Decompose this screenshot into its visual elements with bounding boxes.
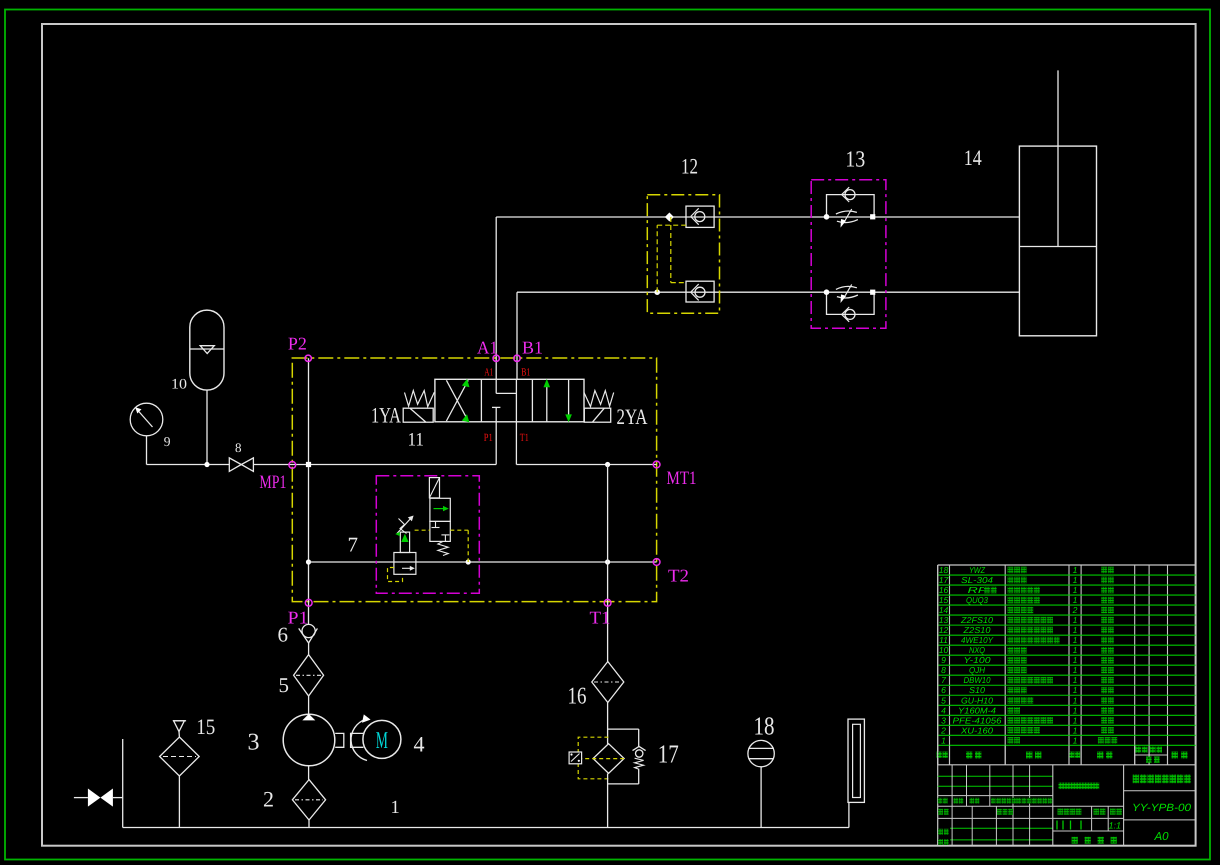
title block signature area grid [938, 565, 1196, 846]
throttle check block 13 boundary (magenta chain) [811, 180, 886, 328]
drawing title CJK [1133, 775, 1191, 784]
svg-text:YWZ: YWZ [969, 565, 986, 575]
svg-text:9: 9 [164, 434, 171, 449]
svg-text:1: 1 [1073, 655, 1078, 665]
svg-text:Y-100: Y-100 [964, 655, 991, 665]
svg-text:1: 1 [941, 735, 946, 745]
pilot control lines (yellow dashed) [415, 530, 469, 562]
svg-text:1: 1 [1073, 585, 1078, 595]
svg-text:1: 1 [1073, 665, 1078, 675]
svg-text:5: 5 [941, 695, 946, 705]
svg-text:QUQ3: QUQ3 [966, 595, 988, 605]
svg-text:2: 2 [1072, 605, 1078, 615]
wire return line T1 down to filter 16 [607, 465, 609, 662]
svg-text:6: 6 [278, 623, 289, 647]
svg-text:4WE10Y: 4WE10Y [961, 635, 994, 645]
port MT1 [653, 461, 660, 468]
svg-text:T2: T2 [668, 566, 689, 586]
svg-text:2: 2 [263, 786, 274, 811]
return filter 16 [592, 662, 624, 703]
wire pump suction below [308, 766, 310, 780]
svg-text:Y160M-4: Y160M-4 [958, 705, 996, 715]
svg-text:MT1: MT1 [667, 468, 697, 489]
svg-text:4: 4 [414, 732, 425, 757]
svg-text:1: 1 [1073, 575, 1078, 585]
pilot cross line lower-to-upper (yellow dashed) [654, 225, 686, 295]
svg-text:2: 2 [940, 725, 946, 735]
wire main pressure line P2-P1-pump [306, 358, 311, 624]
svg-text:1: 1 [1073, 705, 1078, 715]
wire accumulator stem [204, 390, 209, 467]
pressure gauge 9 [130, 403, 163, 436]
svg-text:DBW10: DBW10 [964, 675, 991, 685]
svg-text:7: 7 [348, 532, 359, 556]
BOM parts list table [938, 565, 1196, 765]
pilot valve blocked position symbols [432, 521, 450, 541]
svg-text:P1: P1 [288, 608, 309, 628]
svg-text:A1: A1 [484, 366, 493, 378]
svg-text:1: 1 [1073, 725, 1078, 735]
clogging indicator (yellow dashed box) [569, 737, 624, 779]
port P2 [305, 355, 311, 361]
svg-text:1: 1 [1073, 595, 1078, 605]
manifold block boundary (yellow chain line) [292, 358, 656, 602]
BOM CJK name blocks [984, 567, 1117, 744]
wire T1 valve drop and line to MT1 [516, 422, 656, 467]
svg-text:18: 18 [754, 712, 775, 741]
signature area CJK texts [938, 783, 1122, 846]
pilot cross line upper-to-lower (yellow dashed) [665, 212, 686, 282]
port P1 [305, 599, 312, 606]
svg-text:1: 1 [1073, 715, 1078, 725]
pilot valve open-position green arrow [434, 506, 449, 511]
drain loop (yellow dashed) [388, 568, 403, 582]
svg-text:1: 1 [1073, 635, 1078, 645]
svg-text:2YA: 2YA [617, 404, 648, 429]
valve 11 right position parallel arrows [544, 379, 572, 422]
svg-text:MP1: MP1 [259, 472, 286, 493]
svg-text:11: 11 [939, 635, 948, 645]
svg-text:15: 15 [939, 595, 949, 605]
svg-text:1: 1 [1073, 565, 1078, 575]
port MP1 [289, 462, 296, 469]
drain valve (solid bowtie) [74, 789, 123, 807]
port A1 [493, 355, 499, 361]
BOM header band [937, 745, 1196, 764]
wire filter5 to pump [308, 696, 310, 715]
BOM rows text [939, 565, 1078, 745]
solenoid 2YA box [584, 408, 610, 422]
svg-text:YY-YPB-00: YY-YPB-00 [1132, 802, 1191, 814]
svg-text:13: 13 [845, 147, 865, 172]
svg-text:B1: B1 [521, 366, 530, 378]
svg-text:4: 4 [941, 705, 946, 715]
svg-text:T1: T1 [590, 608, 611, 628]
svg-text:P2: P2 [288, 334, 307, 354]
relief line y562 [309, 559, 657, 564]
filter 17 with bypass [593, 729, 646, 784]
wire P1 valve drop [495, 422, 497, 465]
sight/cooler plate [848, 719, 864, 802]
cylinder 14 body [1019, 146, 1096, 336]
wire gauge stem and MP1 line left segment [147, 436, 230, 465]
svg-text:P1: P1 [484, 432, 493, 444]
check valve 6 [299, 624, 318, 654]
pilot valve boxes [430, 498, 450, 541]
svg-text:A1: A1 [477, 338, 498, 358]
svg-text:8: 8 [941, 665, 946, 675]
svg-text:1: 1 [1073, 625, 1078, 635]
svg-text:9: 9 [941, 655, 946, 665]
upper one-way throttle [824, 187, 876, 227]
hydraulic lock 12 boundary (yellow chain) [647, 195, 719, 314]
air breather 15 [173, 721, 186, 737]
svg-text:QJH: QJH [969, 665, 986, 675]
wire filter16 to filter17 [607, 703, 609, 744]
electric motor 4 [363, 720, 401, 758]
main stage adjustable spring arrow [397, 516, 414, 534]
svg-text:M: M [376, 728, 388, 754]
wire B1 line to cylinder [517, 292, 1019, 379]
valve 11 centre position (Y type) [492, 379, 516, 422]
solenoid 1YA box [403, 408, 433, 422]
lower pilot-operated check valve [686, 281, 714, 302]
wire filter17 to tank [607, 774, 609, 828]
upper pilot-operated check valve [686, 206, 714, 227]
svg-text:1: 1 [1073, 735, 1078, 745]
svg-text:SL-304: SL-304 [961, 575, 993, 585]
vane pump 3 [283, 714, 335, 766]
directional valve 11 body [435, 379, 584, 422]
wire A1 line to cylinder [496, 217, 1019, 379]
svg-text:S10: S10 [969, 685, 985, 695]
svg-text:14: 14 [964, 145, 982, 170]
port T1 [604, 599, 611, 606]
svg-text:B1: B1 [522, 338, 543, 358]
shut-off valve 8 (open bowtie) [229, 458, 253, 472]
main stage poppet [395, 532, 409, 553]
svg-text:1: 1 [1073, 645, 1078, 655]
breather filter diamond [160, 737, 200, 828]
svg-text:15: 15 [196, 714, 215, 739]
tank 1 outline [123, 739, 849, 828]
svg-text:10: 10 [939, 645, 949, 655]
wire valve8 to MP1 and into manifold [253, 464, 496, 466]
svg-text:GU-H10: GU-H10 [961, 695, 993, 705]
svg-text:XU-160: XU-160 [960, 725, 993, 735]
lower one-way throttle [824, 284, 876, 321]
accumulator 10 [190, 310, 224, 390]
valve 11 left spring [405, 391, 435, 407]
svg-text:NXQ: NXQ [969, 645, 985, 655]
svg-text:16: 16 [939, 585, 949, 595]
svg-text:14: 14 [939, 605, 949, 615]
port T2 [653, 559, 660, 566]
suction filter 5 [294, 655, 324, 696]
level gauge 18 [748, 740, 774, 827]
svg-text:18: 18 [939, 565, 949, 575]
svg-text:10: 10 [171, 377, 187, 393]
svg-text:8: 8 [235, 440, 242, 455]
svg-text:Z2S10: Z2S10 [962, 625, 990, 635]
svg-text:1:1: 1:1 [1109, 821, 1122, 831]
valve 11 right spring [584, 391, 614, 407]
svg-text:1YA: 1YA [371, 403, 401, 428]
svg-text:6: 6 [941, 685, 946, 695]
pilot solenoid box [429, 478, 439, 498]
suction strainer 2 [292, 780, 325, 820]
svg-text:12: 12 [681, 153, 698, 178]
cylinder piston rod [1057, 70, 1059, 246]
svg-text:3: 3 [941, 715, 946, 725]
wire strainer to tank [308, 820, 310, 828]
svg-text:16: 16 [568, 684, 587, 710]
svg-text:1: 1 [1073, 675, 1078, 685]
svg-text:5: 5 [279, 673, 290, 697]
valve 11 left position crossed arrows [446, 379, 469, 422]
rotation direction arrow [351, 714, 371, 760]
main stage body [394, 553, 416, 575]
svg-text:17: 17 [658, 740, 679, 769]
svg-text:12: 12 [939, 625, 949, 635]
svg-text:1: 1 [1073, 685, 1078, 695]
svg-text:3: 3 [248, 730, 260, 756]
red port labels A1 B1 P1 T1 [484, 366, 531, 444]
svg-text:1: 1 [1073, 615, 1078, 625]
svg-text:Z2FS10: Z2FS10 [960, 615, 993, 625]
svg-text:1: 1 [391, 798, 400, 818]
port B1 [514, 355, 520, 361]
svg-text:A0: A0 [1153, 831, 1169, 843]
svg-text:1: 1 [1073, 695, 1078, 705]
coupling between pump and motor [335, 733, 363, 747]
svg-text:17: 17 [939, 575, 950, 585]
svg-text:PFE-41056: PFE-41056 [953, 715, 1002, 725]
pilot valve spring [438, 541, 448, 555]
relief valve 7 boundary (magenta chain) [376, 476, 479, 594]
svg-text:11: 11 [408, 430, 425, 451]
svg-text:T1: T1 [520, 432, 529, 444]
svg-text:13: 13 [939, 615, 949, 625]
